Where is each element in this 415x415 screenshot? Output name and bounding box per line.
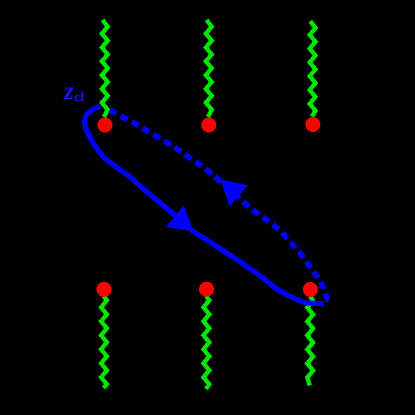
node: bottom-right vertex dot xyxy=(303,282,318,297)
node: top-left vertex dot xyxy=(98,118,113,133)
wire: top-right photon zigzag xyxy=(310,21,316,117)
wire: classical path dashed branch (upper-right half of loop) xyxy=(110,110,327,302)
arrow on dashed branch (points up-left) xyxy=(220,179,248,206)
label z_cl xyxy=(64,79,74,104)
wire: bottom-middle photon zigzag xyxy=(204,296,210,389)
wire: classical path solid branch (lower-left half of loop) xyxy=(85,106,324,303)
node: top-right vertex dot xyxy=(305,117,320,132)
node: bottom-middle vertex dot xyxy=(199,282,214,297)
wire: top-left photon zigzag xyxy=(102,20,108,117)
wire: bottom-right photon zigzag xyxy=(307,297,313,386)
wire: top-middle photon zigzag xyxy=(206,20,212,117)
wire: bottom-left photon zigzag xyxy=(101,296,107,388)
node: bottom-left vertex dot xyxy=(97,282,112,297)
arrow on solid branch (points down-right) xyxy=(166,205,193,231)
node: top-middle vertex dot xyxy=(201,118,216,133)
